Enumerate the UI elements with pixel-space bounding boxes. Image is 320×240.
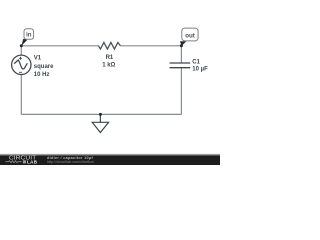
capacitor C1: [170, 63, 191, 68]
wire right vertical upper (out node to C1 top plate): [180, 46, 182, 63]
svg-text:http://circuitlab.com/c/befkzs: http://circuitlab.com/c/befkzs: [47, 160, 94, 164]
label V1 value: [34, 56, 54, 78]
node in: junction dot: [20, 44, 23, 47]
svg-text:C1: C1: [192, 59, 200, 65]
label R1 value: [102, 55, 115, 69]
svg-text:10 µF: 10 µF: [192, 66, 208, 72]
V1 waveform glyph: [14, 60, 27, 69]
label C1 value: [192, 59, 208, 72]
wire top-right horizontal (R1 right lead to out node): [120, 45, 181, 47]
voltage source V1: [12, 55, 31, 74]
svg-text:out: out: [185, 33, 195, 40]
ground: [92, 114, 108, 132]
wire top-left horizontal (in node to R1 left lead): [21, 45, 99, 47]
svg-text:in: in: [26, 32, 32, 39]
node in: label tail: [21, 39, 27, 46]
V1 plus sign: [19, 57, 22, 60]
svg-text:V1: V1: [34, 56, 42, 62]
node in: label box: [24, 29, 34, 40]
wire bottom rail: [21, 113, 181, 115]
node out: label tail: [180, 41, 186, 46]
node out: label box: [182, 28, 198, 41]
node out: junction dot: [180, 44, 183, 47]
watermark logo LAB: [23, 160, 26, 163]
watermark logo zigzag: [6, 161, 22, 163]
wire left vertical upper (in node to V1 top): [20, 46, 22, 56]
svg-text:square: square: [34, 64, 54, 70]
wire right vertical lower (C1 bottom plate to bottom rail): [180, 68, 182, 115]
svg-text:1 kΩ: 1 kΩ: [102, 63, 115, 69]
svg-text:10 Hz: 10 Hz: [34, 72, 50, 78]
V1 minus sign: [19, 71, 22, 73]
svg-text:LAB: LAB: [27, 159, 38, 164]
ground junction dot: [99, 113, 102, 116]
svg-text:R1: R1: [106, 55, 114, 61]
resistor R1: [99, 42, 121, 49]
wire left vertical lower (V1 bottom to bottom rail): [20, 74, 22, 114]
